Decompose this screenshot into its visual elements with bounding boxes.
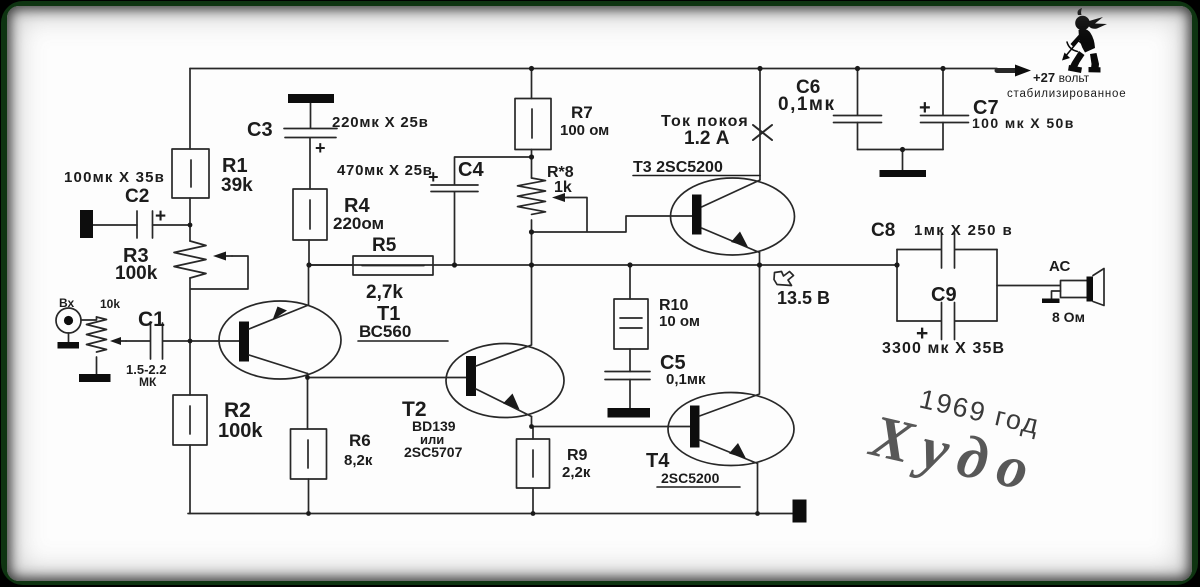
wire: R4 bottom to mid rail	[308, 240, 310, 265]
resistor R3 (trimmer)	[174, 241, 232, 278]
wire: C1 to T1 base	[163, 340, 239, 342]
wire: C2 block to plates	[93, 224, 137, 226]
wire: top V+ rail	[190, 68, 997, 70]
wire: top rail to C6	[857, 69, 859, 116]
capacitor C3 top bar	[288, 94, 334, 103]
wire: top rail to C7	[942, 69, 944, 116]
wire: T2 emitter node	[531, 417, 533, 427]
resistor R1	[172, 149, 209, 198]
wire: bottom ground rail	[188, 513, 793, 515]
capacitor C2	[137, 211, 153, 238]
wire: R6 bottom to ground rail	[308, 479, 310, 514]
resistor R*8 (trimmer)	[518, 178, 569, 214]
underline of T3 label	[633, 175, 760, 177]
ground bar at rail end	[793, 500, 807, 523]
capacitor C5	[605, 372, 650, 380]
transistor T3 2SC5200	[671, 178, 795, 255]
ground bar below pot	[79, 374, 111, 382]
supply arrow	[997, 65, 1031, 77]
transistor T4 2SC5200	[668, 393, 794, 466]
wire: mid rail to R10	[629, 265, 631, 299]
wire: R*8 bottom run down to T2 collector	[531, 220, 533, 345]
wire: C3 bar to plates	[310, 103, 312, 128]
cupid silhouette	[1062, 8, 1107, 73]
wire: C8/C9 box left	[896, 250, 898, 322]
resistor R2	[173, 395, 207, 445]
wire: T1 emitter up to mid rail	[308, 265, 310, 305]
wire: box to speaker	[997, 285, 1060, 287]
wire: jack to pot	[81, 317, 97, 320]
wire: link to ground bar	[902, 150, 904, 171]
wire: T3 collector to top rail	[759, 69, 761, 180]
wire: R10 to C5	[629, 349, 631, 372]
13.5V pointer flag	[774, 272, 794, 286]
potentiometer 10k	[87, 317, 127, 352]
resistor R4	[293, 189, 327, 240]
resistor R5	[353, 256, 433, 275]
wire: speaker ground stub	[1052, 291, 1061, 299]
transistor T2 BD139	[446, 344, 564, 418]
ground bar below C6/C7	[880, 170, 927, 177]
wire: R*8 rheostat loop	[568, 198, 587, 232]
wire: box top edges to C8	[897, 249, 941, 251]
capacitor C7	[921, 116, 969, 123]
wire: left rail top (rail to R1)	[189, 69, 191, 150]
capacitor C4	[431, 185, 478, 192]
capacitor C6	[834, 116, 882, 123]
resistor R6	[291, 429, 327, 479]
wire: mid rail down to T4 collector	[759, 265, 761, 393]
wire: R3 bottom to input node	[189, 278, 191, 341]
wire: T1 collector down to R6	[307, 374, 309, 430]
wire: pot bottom to ground	[96, 357, 98, 374]
resistor R10	[614, 299, 648, 349]
capacitor C8	[942, 233, 955, 268]
speaker AC	[1061, 269, 1105, 306]
wire: T1 collector to T2 base	[308, 377, 467, 379]
wire: R9 bottom to ground rail	[532, 488, 534, 514]
speaker ground bar	[1042, 299, 1060, 304]
resistor R9	[517, 439, 550, 488]
wire: input node to R2 top	[189, 341, 191, 395]
wire: R7 to R*8	[531, 150, 533, 179]
capacitor C1	[151, 323, 163, 359]
wire: R3 rheostat loop	[191, 256, 248, 289]
terminal block at C2	[80, 210, 93, 238]
wire: T3 emitter to mid rail	[759, 253, 761, 266]
wire: node to R9	[532, 427, 534, 440]
wire: C4 top to R7 bottom node	[455, 157, 532, 185]
wire: R2 bottom to ground rail	[189, 445, 191, 514]
wire: box bottom edges to C9	[897, 320, 941, 322]
underline of T4 label	[657, 486, 740, 488]
transistor T1 BC560	[219, 301, 341, 379]
wire: C5 to ground bar	[629, 380, 631, 409]
ground bar below C5	[608, 408, 651, 418]
wire: T4 emitter to ground rail	[757, 464, 759, 514]
wire: mid rail (output node)	[309, 264, 897, 266]
wire: mid rail to R5 left	[309, 264, 353, 266]
cupid arrow and bow	[1065, 36, 1085, 57]
underline of T1 label	[358, 340, 448, 342]
wire: jack stem	[68, 333, 70, 342]
wire: C8/C9 box right	[996, 250, 998, 322]
wire: node to T3 base	[532, 216, 693, 232]
jack ground bar	[58, 342, 80, 349]
wire: C7 bottom	[942, 123, 944, 150]
capacitor C3	[284, 129, 337, 138]
wire: T2 emitter to T4 base	[532, 426, 691, 428]
wire: C6 bottom	[857, 123, 859, 150]
test point X mark	[753, 125, 772, 140]
wire: C4 bottom to mid rail	[454, 192, 456, 265]
capacitor C9	[942, 303, 955, 340]
wire: top rail to R7	[531, 69, 533, 99]
wire: R1 bottom to R3 top	[189, 198, 191, 241]
input jack Вх	[56, 308, 81, 333]
wire: pot wiper to C1	[126, 340, 150, 342]
wire: C2 to left rail	[153, 224, 191, 226]
resistor R7	[515, 99, 551, 150]
wire: C3 to R4 top	[309, 138, 311, 189]
wire: C6/C7 bottom link	[858, 149, 944, 151]
